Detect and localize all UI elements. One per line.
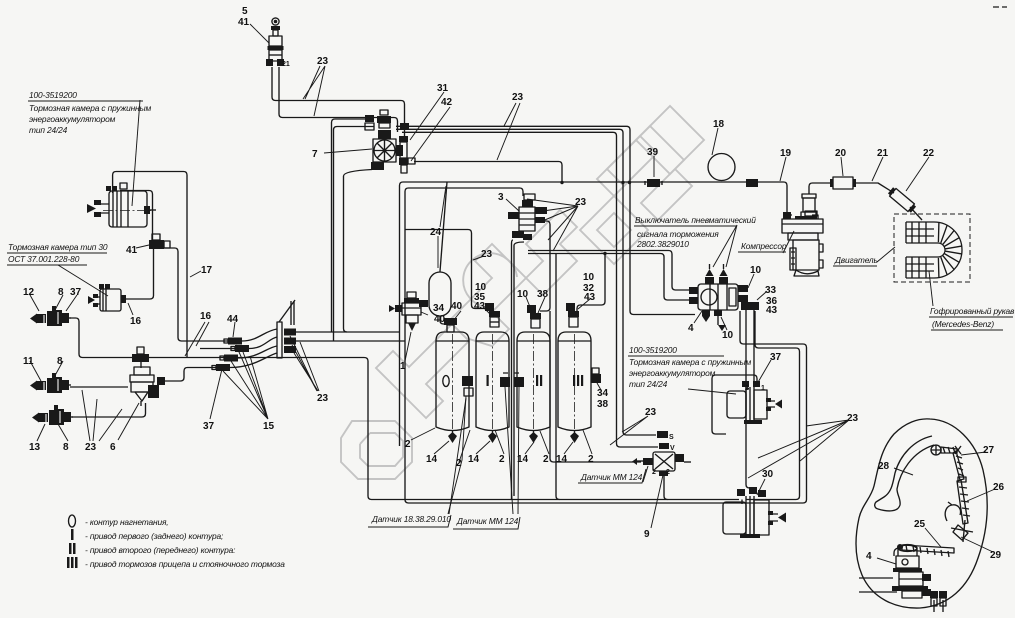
- text block 100-3519200 left: [28, 90, 152, 135]
- text vykluchatel: [634, 215, 756, 249]
- wire hose curve 1: [242, 329, 277, 341]
- pedal 28: [875, 436, 934, 511]
- leader 34 40 item1: [420, 304, 428, 315]
- svg-text:16: 16: [130, 316, 142, 327]
- svg-text:сигнала торможения: сигнала торможения: [637, 229, 719, 239]
- wire frame inner left vertical to bottom: [405, 192, 807, 504]
- legend symbol II: [69, 543, 76, 554]
- legend symbol I: [71, 529, 74, 540]
- junction dot d: [628, 181, 631, 184]
- leader 10 32 43 tank4: [578, 299, 590, 309]
- leader kompressor: [783, 231, 794, 253]
- svg-text:1: 1: [761, 385, 765, 392]
- tank1 top fitting: [444, 318, 457, 332]
- junction dot b: [603, 252, 606, 255]
- tank4 sensor 34 38: [591, 368, 601, 383]
- wire valve3 out a to valve4: [528, 251, 695, 291]
- svg-text:Тормозная камера с пружинным: Тормозная камера с пружинным: [29, 103, 152, 113]
- wire blob valve stubs: [934, 600, 943, 612]
- leader 31: [410, 92, 444, 140]
- svg-text:2: 2: [405, 439, 411, 450]
- tank3 top fitting: [527, 305, 541, 328]
- engine dashed box: [894, 214, 970, 282]
- leader 37 chamber: [757, 360, 771, 384]
- svg-text:1: 1: [400, 361, 406, 372]
- wire tank4 feed: [577, 254, 605, 312]
- wire regulator6 right to hose fitting4: [158, 368, 216, 382]
- svg-text:28: 28: [878, 461, 890, 472]
- wire gap pipe tank3-4 down: [556, 254, 560, 500]
- wire axle1 to main run: [70, 318, 364, 358]
- svg-text:16: 16: [200, 311, 212, 322]
- leader 23 top to pipes: [303, 66, 325, 116]
- svg-text:38: 38: [537, 289, 549, 300]
- wire top triple a to valve4: [396, 126, 695, 314]
- wire governor to filter20: [809, 183, 833, 194]
- brake chamber 30 right bottom: [723, 487, 786, 538]
- svg-text:38: 38: [597, 399, 609, 410]
- filter 20: [830, 177, 856, 189]
- svg-text:14: 14: [556, 454, 568, 465]
- svg-text:12: 12: [23, 287, 35, 298]
- manifold plate: [277, 300, 296, 358]
- svg-text:6: 6: [110, 442, 116, 453]
- svg-text:27: 27: [983, 445, 995, 456]
- svg-text:тип 24/24: тип 24/24: [629, 379, 668, 389]
- wire valve9 bottom to line: [664, 472, 668, 500]
- leader datchik1838: [449, 398, 466, 514]
- leader 38 tank3: [538, 297, 545, 313]
- wire filter20 to item22: [853, 183, 894, 193]
- wire axle3 to regulator6: [72, 403, 146, 417]
- clevis 29: [951, 520, 973, 542]
- svg-text:V: V: [670, 445, 675, 452]
- svg-text:23: 23: [512, 92, 524, 103]
- leader 23 valve9: [610, 416, 648, 445]
- leader 20: [841, 157, 843, 176]
- leader type30 text to chamber2: [58, 265, 108, 296]
- leader 37 axle1: [66, 295, 77, 311]
- svg-text:23: 23: [575, 197, 587, 208]
- svg-text:тип 24/24: тип 24/24: [29, 125, 68, 135]
- wire 23 vertical to tank2: [405, 230, 488, 309]
- wire item22 to engine: [910, 207, 922, 220]
- wire valve3 out b to valve4: [528, 254, 695, 301]
- wire chamber1 to tee41: [120, 191, 153, 241]
- svg-text:14: 14: [517, 454, 529, 465]
- svg-text:34: 34: [597, 388, 609, 399]
- svg-text:2: 2: [666, 469, 670, 476]
- leader 25: [925, 528, 941, 547]
- text kompressor: [738, 241, 787, 252]
- leader sensors23 down: [505, 387, 519, 514]
- tank II marking: [536, 375, 542, 386]
- wire main run down to bottom line: [364, 358, 739, 500]
- svg-text:Датчик ММ 124: Датчик ММ 124: [456, 516, 519, 526]
- wire plate pipe right b: [296, 340, 405, 342]
- wire hose curve 3: [238, 346, 277, 358]
- legend symbol III: [67, 557, 78, 568]
- svg-text:10: 10: [583, 272, 595, 283]
- leader 16 pipes: [185, 322, 209, 356]
- pedal brake valve 4: [892, 545, 947, 607]
- capsule item 24: [429, 272, 451, 316]
- svg-text:2: 2: [499, 454, 505, 465]
- svg-text:21: 21: [877, 148, 889, 159]
- svg-text:Датчик ММ 124: Датчик ММ 124: [580, 472, 643, 482]
- leader 15 fan: [223, 345, 268, 419]
- air tank O: [436, 332, 469, 443]
- svg-text:41: 41: [238, 17, 250, 28]
- wire frame outer left vertical down: [399, 186, 401, 447]
- corner marks: [993, 6, 1007, 8]
- svg-text:20: 20: [835, 148, 847, 159]
- svg-text:11: 11: [23, 356, 34, 367]
- wire tee41 right down to hose feed: [164, 248, 228, 341]
- svg-text:10: 10: [750, 265, 762, 276]
- leader text24 right to chamber37: [688, 389, 736, 394]
- svg-text:Гофрированный рукав: Гофрированный рукав: [930, 306, 1015, 316]
- svg-text:23: 23: [847, 413, 859, 424]
- PIPES: [70, 67, 943, 612]
- wire tee41 to chamber2: [126, 249, 154, 299]
- svg-text:2: 2: [745, 385, 749, 392]
- watermark glyph n2: [607, 126, 692, 220]
- wire valve5 right drop to valve7 top: [279, 67, 398, 132]
- tank1 sensor: [462, 376, 473, 396]
- watermark glyph e: [341, 421, 412, 479]
- svg-text:Двигатель: Двигатель: [834, 255, 878, 265]
- text block 100-3519200 right: [628, 345, 752, 389]
- leader 10 valve4 bottom: [721, 317, 727, 330]
- leader 1: [405, 332, 411, 361]
- svg-text:100-3519200: 100-3519200: [29, 90, 77, 100]
- svg-text:4: 4: [688, 323, 694, 334]
- leader 22: [906, 157, 929, 191]
- wire hose curve 4: [230, 353, 277, 368]
- svg-text:8: 8: [57, 356, 63, 367]
- leader 29: [961, 537, 993, 552]
- wire top triple b to valve9 S: [396, 129, 656, 435]
- svg-text:7: 7: [312, 149, 318, 160]
- item 1 pressure regulator: [389, 292, 428, 331]
- leader 37 hoses: [210, 369, 222, 419]
- pedal pivot 27: [931, 445, 961, 455]
- leader 2 tanks: [495, 430, 592, 454]
- svg-text:2: 2: [652, 469, 656, 476]
- leader 23 right fan: [748, 420, 849, 478]
- svg-text:43: 43: [474, 301, 486, 312]
- svg-text:2: 2: [456, 458, 462, 469]
- svg-text:2: 2: [543, 454, 549, 465]
- tank I marking: [487, 375, 489, 386]
- text block type 30: [7, 242, 108, 265]
- fitting 41 tee: [149, 234, 170, 249]
- junction dot c: [621, 181, 624, 184]
- svg-text:15: 15: [263, 421, 275, 432]
- svg-text:23: 23: [481, 249, 493, 260]
- brake chamber 24/24 top left: [87, 183, 156, 227]
- wire valve9 right stub: [684, 461, 691, 463]
- svg-text:- привод тормозов прицепа и с: - привод тормозов прицепа и стояночного …: [85, 559, 285, 569]
- brake chamber 37 right: [727, 381, 782, 424]
- svg-text:9: 9: [644, 529, 650, 540]
- item 22 inclined filter: [887, 187, 916, 214]
- leader 12: [30, 295, 39, 311]
- svg-text:23: 23: [645, 407, 657, 418]
- svg-text:ОСТ 37.001.228-80: ОСТ 37.001.228-80: [8, 254, 80, 264]
- wire blob pipe b: [859, 591, 897, 593]
- leader 11: [30, 361, 41, 381]
- leader 39: [653, 156, 655, 177]
- leader 24 up: [440, 186, 446, 227]
- leader 18: [712, 128, 718, 155]
- svg-text:23: 23: [317, 56, 329, 67]
- rod 27: [953, 451, 964, 480]
- watermark glyph p: [376, 324, 469, 418]
- svg-text:33: 33: [765, 285, 777, 296]
- leader 40 tank1: [453, 311, 461, 321]
- leader 23 valve3 fan: [527, 199, 578, 251]
- leader 34 38 tank4: [597, 383, 601, 390]
- svg-text:Тормозная камера с пружинным: Тормозная камера с пружинным: [629, 357, 752, 367]
- leader 3: [506, 199, 519, 211]
- watermark glyph d: [636, 106, 704, 174]
- leader 17: [190, 271, 201, 277]
- svg-text:43: 43: [766, 305, 778, 316]
- svg-text:- привод первого (заднего) ко: - привод первого (заднего) контура;: [85, 531, 224, 541]
- valve 5 tow hitch valve: [266, 18, 284, 66]
- svg-text:18: 18: [713, 119, 725, 130]
- fitting 39: [645, 179, 662, 187]
- text dvigatel: [833, 255, 878, 266]
- wire valve4 elbow drop a: [746, 310, 752, 488]
- wire frame outer left vertical: [400, 182, 788, 216]
- leader gofr: [929, 271, 933, 306]
- svg-text:(Mercedes-Benz): (Mercedes-Benz): [932, 319, 994, 329]
- leader 14 drains: [434, 441, 573, 454]
- tank2-3 sensors: [500, 373, 524, 387]
- leader 7: [324, 149, 372, 153]
- watermark glyph n1: [597, 136, 657, 196]
- svg-text:- привод второго (переднего): - привод второго (переднего) контура:: [85, 545, 235, 555]
- svg-text:19: 19: [780, 148, 792, 159]
- svg-text:13: 13: [29, 442, 41, 453]
- leader 42: [411, 107, 450, 161]
- leader 10 tank3: [526, 297, 532, 312]
- svg-text:37: 37: [770, 352, 782, 363]
- axle assembly rear 13: [32, 405, 73, 425]
- brake chamber type30 left: [88, 284, 126, 311]
- leader 33 36 43: [757, 292, 766, 300]
- svg-text:10: 10: [722, 330, 734, 341]
- svg-text:40: 40: [451, 301, 463, 312]
- svg-text:8: 8: [58, 287, 64, 298]
- wire valve7 left upper down: [332, 119, 375, 332]
- svg-text:42: 42: [441, 97, 453, 108]
- svg-text:40: 40: [434, 314, 446, 325]
- regulator 6 tee: [132, 347, 149, 368]
- svg-text:41: 41: [126, 245, 138, 256]
- svg-text:23: 23: [85, 442, 97, 453]
- air tank I: [476, 332, 509, 443]
- leader 41 tee: [136, 245, 149, 248]
- tank4 top fitting: [566, 303, 579, 327]
- compressor: [782, 211, 823, 276]
- hose fitting 44a: [224, 338, 242, 345]
- svg-text:Датчик 18.38.29.010: Датчик 18.38.29.010: [371, 514, 451, 524]
- hook item at 29: [945, 502, 960, 521]
- junction dot a: [560, 181, 563, 184]
- wire valve5 left drop to valve7: [272, 67, 405, 139]
- wire hose curve 2: [249, 337, 277, 349]
- leader 6: [118, 403, 139, 440]
- wire valve7 bottom port down 23: [344, 170, 373, 333]
- leader text block to chamber1: [132, 100, 140, 206]
- four circuit protection valve 4: [689, 264, 759, 331]
- leader 44: [233, 322, 235, 337]
- hose fitting 15a: [220, 355, 238, 362]
- hose fitting 15b: [212, 364, 230, 371]
- watermark glyph z: [526, 210, 577, 295]
- leader 4 pedal: [877, 558, 896, 564]
- wire plate pipe right a: [296, 331, 400, 333]
- wire top triple c to valve9 V: [402, 132, 658, 447]
- wire frame inner top: [405, 188, 523, 196]
- leader 2 tank2 low: [459, 430, 470, 462]
- svg-text:17: 17: [201, 265, 213, 276]
- wire chamber1 loop 17: [113, 172, 187, 358]
- text datchik 18.38: [368, 514, 451, 527]
- svg-text:43: 43: [584, 292, 596, 303]
- air tank III: [558, 332, 591, 443]
- wire valve7 left lower down: [334, 127, 375, 342]
- svg-text:3: 3: [498, 192, 504, 203]
- wire line to chamber30 fitting: [741, 500, 743, 505]
- leader 4 valve4: [694, 311, 702, 323]
- tank2 top fitting: [485, 303, 500, 327]
- svg-text:31: 31: [437, 83, 449, 94]
- svg-text:2: 2: [588, 454, 594, 465]
- hose fitting 44b: [231, 345, 249, 352]
- brake valve 9: [632, 431, 684, 476]
- text datchik mm124 right: [578, 469, 646, 483]
- tank III marking: [573, 375, 583, 386]
- wire valve3 bottom pipe a: [512, 240, 514, 500]
- legend symbol O: [69, 515, 76, 527]
- leader 19: [780, 157, 786, 181]
- governor above compressor: [801, 194, 816, 217]
- leader 10 valve4 right: [748, 274, 754, 288]
- leader 23 mid-top to pipes: [497, 103, 520, 160]
- watermark glyph o: [580, 196, 648, 264]
- leader 2 tank1: [411, 428, 435, 440]
- wire valve3 to tank3: [540, 221, 550, 311]
- svg-text:- контур нагнетания,: - контур нагнетания,: [85, 517, 168, 527]
- svg-text:37: 37: [70, 287, 82, 298]
- wire frame to capsule24: [440, 182, 447, 272]
- leader sensor1 down: [448, 396, 466, 514]
- regulator 6: [130, 367, 165, 406]
- svg-text:37: 37: [203, 421, 215, 432]
- wire valve4 elbow drop b to chamber37: [753, 310, 755, 384]
- leader 13: [37, 424, 45, 441]
- svg-text:26: 26: [993, 482, 1005, 493]
- air tank II: [517, 332, 550, 443]
- leader 27: [961, 452, 986, 455]
- svg-text:Выключатель пневматический: Выключатель пневматический: [635, 215, 756, 225]
- watermark glyph arc: [463, 253, 517, 307]
- svg-text:14: 14: [426, 454, 438, 465]
- leader 23 vert: [473, 256, 484, 260]
- WATERMARK: [341, 106, 704, 479]
- svg-text:21: 21: [282, 61, 290, 68]
- wire valve7 right output: [414, 162, 562, 183]
- watermark glyph i: [449, 244, 526, 346]
- svg-text:23: 23: [317, 393, 329, 404]
- svg-text:Тормозная камера тип 30: Тормозная камера тип 30: [8, 242, 108, 252]
- svg-text:Компрессор: Компрессор: [741, 241, 787, 251]
- svg-text:30: 30: [762, 469, 774, 480]
- svg-text:5: 5: [242, 6, 248, 17]
- wire bottom outer right frame: [746, 311, 800, 500]
- wire hose feed 2: [200, 348, 235, 350]
- leader 24 down: [437, 236, 439, 268]
- leader 28: [894, 468, 913, 475]
- axle assembly mid 11: [30, 373, 71, 393]
- svg-text:14: 14: [468, 454, 480, 465]
- leader 23 plate fan: [290, 336, 319, 391]
- svg-text:S: S: [669, 434, 674, 441]
- svg-text:44: 44: [227, 314, 239, 325]
- valve 3: [508, 194, 547, 240]
- leader 21: [872, 157, 883, 181]
- svg-text:энергоаккумулятором: энергоаккумулятором: [29, 114, 116, 124]
- leader 26: [967, 489, 995, 501]
- text gofrirovanny: [929, 306, 1015, 330]
- svg-text:энергоаккумулятором: энергоаккумулятором: [629, 368, 716, 378]
- svg-text:100-3519200: 100-3519200: [629, 345, 677, 355]
- svg-text:29: 29: [990, 550, 1002, 561]
- wire capsule24 to tank1: [440, 316, 448, 324]
- leader vykl to valve4: [713, 225, 737, 267]
- rod 26: [957, 477, 970, 524]
- leader dvigatel: [877, 247, 895, 262]
- leader 8 axle1: [55, 295, 63, 310]
- leader 8 axle3: [58, 424, 68, 441]
- valve 7 two-way valve: [365, 110, 415, 173]
- svg-text:2802.3829010: 2802.3829010: [636, 239, 689, 249]
- pedal blob outline: [856, 419, 987, 608]
- svg-text:39: 39: [647, 147, 659, 158]
- wire valve3 bottom pipe b: [514, 242, 524, 496]
- svg-text:8: 8: [63, 442, 69, 453]
- leader 30 chamber: [757, 479, 765, 495]
- wire chamber37 branch: [746, 388, 749, 390]
- wire axle2 to regulator6: [70, 386, 128, 388]
- corrugated hose elbow: [906, 222, 962, 278]
- svg-text:22: 22: [923, 148, 935, 159]
- pressure tank 18: [708, 154, 735, 181]
- fitting mid line: [746, 179, 758, 187]
- leader 16 chamber2: [128, 303, 133, 315]
- svg-text:24: 24: [430, 227, 442, 238]
- text datchik mm124 bottom: [453, 516, 520, 529]
- svg-text:10: 10: [517, 289, 529, 300]
- wire blob pipe a: [859, 577, 893, 579]
- svg-text:25: 25: [914, 519, 926, 530]
- axle assembly front 12: [30, 306, 71, 326]
